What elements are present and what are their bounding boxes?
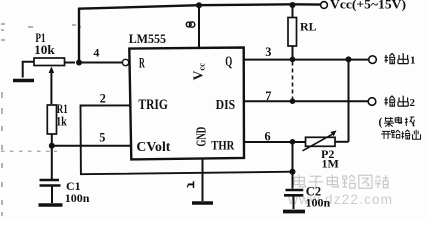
pin name THR: [211, 139, 235, 153]
label C2: [306, 184, 321, 198]
pin name Q: [225, 54, 232, 70]
annotation (集电极 开路输出: [379, 117, 421, 140]
svg-text:100n: 100n: [65, 191, 90, 205]
capacitor C2: [284, 190, 303, 209]
node: RL/Vcc rail junction: [290, 2, 296, 8]
wire pin 4: [81, 62, 122, 64]
svg-text:(: (: [379, 117, 383, 129]
label pin 1 (rotated): [187, 181, 194, 188]
node: TRIG-run/C2 junction: [290, 169, 296, 175]
label pin 5: [99, 130, 105, 144]
potentiometer P2: [303, 130, 349, 150]
node: DIS/RL dashed junction: [290, 98, 296, 104]
wire pin 8: [198, 5, 200, 48]
label LM555: [129, 32, 166, 46]
pin name DIS: [216, 97, 236, 112]
node: Q/P2 feedback junction: [346, 56, 352, 62]
label 100n: [306, 196, 331, 210]
svg-text:5: 5: [99, 130, 105, 144]
svg-text:LM555: LM555: [129, 32, 166, 46]
svg-text:2: 2: [410, 97, 416, 109]
label P1: [35, 30, 45, 45]
dashed link RL to DIS: [292, 62, 294, 100]
svg-text:TRIG: TRIG: [138, 97, 167, 113]
svg-text:100n: 100n: [306, 196, 331, 210]
ground (C2): [283, 210, 305, 214]
label 输出1: [385, 53, 416, 66]
svg-text:THR: THR: [211, 139, 235, 153]
label pin 2: [100, 91, 106, 105]
svg-text:GND: GND: [195, 127, 210, 147]
svg-text:6: 6: [265, 129, 271, 143]
label pin 8 (rotated): [186, 22, 195, 27]
wire: top Vcc rail: [79, 4, 321, 62]
label 输出2: [385, 96, 416, 109]
node: P1/pin4/Vcc junction: [76, 60, 82, 66]
svg-text:DIS: DIS: [216, 97, 236, 112]
svg-text:Q: Q: [225, 54, 232, 70]
op-amp/timer IC U1 LM555: [129, 48, 244, 160]
pin name Vcc (rotated): [190, 63, 206, 81]
pin name CVolt: [136, 139, 170, 154]
terminal output 2: [368, 98, 376, 106]
label pin 6: [265, 129, 271, 143]
node: Q/RL junction: [290, 57, 296, 63]
node: pin8/Vcc rail junction: [196, 2, 202, 8]
label RL: [300, 19, 317, 33]
label Vcc(+5~15V): [330, 0, 406, 11]
watermark line 1: [294, 175, 388, 189]
node: THR/C2 junction: [290, 139, 296, 145]
svg-text:2: 2: [100, 91, 106, 105]
label 100n: [65, 191, 90, 205]
pin name TRIG: [138, 97, 167, 113]
svg-text:Vcc(+5~15V): Vcc(+5~15V): [330, 0, 406, 11]
svg-text:1M: 1M: [322, 156, 339, 170]
svg-text:1k: 1k: [56, 113, 67, 128]
wire pin 7 (DIS): [244, 100, 368, 102]
svg-text:CVolt: CVolt: [136, 139, 170, 154]
pin name GND (rotated): [195, 127, 210, 147]
resistor R1: [47, 105, 56, 145]
svg-text:RL: RL: [300, 19, 317, 33]
svg-text:4: 4: [93, 45, 99, 59]
scan artifact dashes left edge: [1, 24, 81, 216]
svg-text:3: 3: [265, 45, 271, 59]
svg-text:10k: 10k: [34, 43, 56, 57]
potentiometer P1: [23, 58, 75, 104]
svg-text:7: 7: [265, 89, 271, 103]
label 1k: [56, 113, 67, 128]
node: R1/CVolt/C1 junction: [49, 143, 55, 149]
wire pin 5: [52, 145, 131, 147]
pin name R: [139, 55, 145, 71]
watermark line 2: [287, 192, 393, 207]
label pin 7: [265, 89, 271, 103]
terminal Vcc: [321, 2, 328, 9]
wire Q-to-P2 vertical feedback: [348, 59, 350, 141]
inverting bubble on R pin: [122, 59, 128, 65]
ground (C1): [39, 203, 63, 207]
label pin 4: [93, 45, 99, 59]
label R1: [57, 101, 68, 116]
wire THR node down to C2: [292, 142, 294, 189]
svg-text:1: 1: [410, 55, 416, 67]
wire pin 2 and bottom feedback run: [81, 105, 293, 174]
resistor RL: [288, 5, 297, 59]
scan artifact horizontal dashed fold line: [1, 150, 57, 152]
ground (P1 left): [13, 79, 34, 83]
terminal output 1: [369, 56, 377, 64]
wire pin 1: [202, 158, 204, 201]
wire pin 6 (THR): [244, 141, 306, 143]
label C1: [66, 179, 81, 193]
capacitor C1: [40, 146, 61, 203]
label 10k: [34, 43, 56, 57]
label pin 3: [265, 45, 271, 59]
label 1M: [322, 156, 339, 170]
svg-text:R: R: [139, 55, 145, 71]
label P2: [321, 147, 334, 161]
ground (pin 1): [192, 201, 213, 205]
wire pin 3 (Q output): [244, 59, 369, 61]
